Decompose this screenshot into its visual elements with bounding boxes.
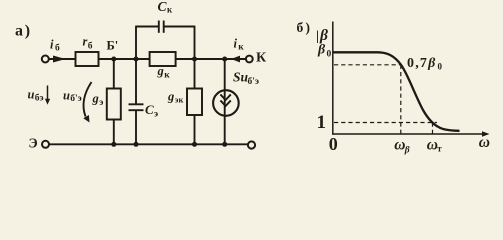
junction dot rail at g_e (111, 142, 116, 147)
label C_k (158, 0, 174, 14)
svg-text:э: э (99, 98, 103, 108)
capacitor C_e plates (129, 104, 144, 110)
svg-text:б'э: б'э (70, 93, 82, 104)
svg-text:Su: Su (233, 70, 249, 85)
dashed line 0.7 beta_0 level (334, 64, 401, 66)
terminal K (246, 56, 253, 63)
curve beta frequency response (334, 52, 460, 131)
svg-text:Б': Б' (107, 39, 119, 53)
capacitor C_k plates (159, 21, 164, 33)
label 0,7beta_0 (407, 56, 443, 72)
dashed line omega_T vertical (432, 123, 434, 134)
resistor g_e (107, 89, 121, 120)
svg-text:ω: ω (479, 134, 490, 151)
svg-text:Э: Э (29, 136, 38, 151)
terminal E (42, 141, 49, 148)
resistor g_k (150, 52, 176, 66)
label r_b (83, 35, 93, 52)
wire C_k top rail right (165, 26, 196, 28)
label C_e (145, 102, 158, 119)
junction dot rail at C_e (134, 142, 139, 147)
label i_b (50, 38, 60, 54)
label u_be (28, 88, 44, 104)
wire C_k top rail left (135, 26, 158, 28)
svg-text:э: э (154, 110, 158, 120)
label g_ek (167, 89, 183, 104)
label g_k (157, 64, 171, 81)
svg-text:б: б (88, 41, 93, 52)
x-axis omega with arrowhead (333, 131, 490, 137)
node B' junction dot (111, 57, 116, 62)
label g_e (92, 92, 104, 108)
svg-text:0: 0 (329, 134, 338, 154)
node C_k/g_ek junction dot on main wire (192, 57, 197, 62)
resistor g_ek (187, 89, 202, 116)
svg-text:|: | (331, 28, 334, 43)
svg-text:g: g (157, 64, 164, 78)
svg-text:б: б (55, 43, 60, 54)
label omega_T (427, 137, 443, 154)
node C_k/C_e junction dot on main wire (134, 57, 139, 62)
dashed line level 1 (334, 122, 437, 124)
wire C_k branch left vertical (135, 27, 137, 60)
wire collector node down through current source to emitter rail (224, 59, 226, 144)
voltage arrow u_be (45, 86, 50, 105)
svg-text:|: | (316, 28, 319, 43)
label omega_beta (394, 137, 410, 156)
label Su_b'e (233, 70, 259, 88)
label beta_0 (317, 43, 332, 60)
svg-text:C: C (158, 0, 168, 14)
svg-text:бэ: бэ (35, 92, 44, 103)
svg-text:0: 0 (327, 50, 332, 60)
wire main row down to g_ek (194, 59, 196, 89)
y-axis |beta| (332, 22, 334, 135)
current arrow i_b (53, 56, 66, 63)
current source Su_b'e (213, 90, 239, 116)
svg-text:u: u (28, 88, 35, 102)
voltage arc arrow u_b'e (83, 82, 91, 123)
terminal base input (42, 56, 49, 63)
label u_b'e (63, 88, 82, 104)
svg-text:u: u (63, 88, 70, 102)
svg-text:β: β (317, 43, 326, 58)
svg-text:1: 1 (317, 112, 327, 133)
current arrow i_k (231, 56, 240, 63)
svg-text:б): б) (297, 20, 313, 35)
svg-text:C: C (145, 102, 154, 117)
svg-text:i: i (234, 37, 238, 51)
resistor r_b (76, 52, 99, 66)
wire g_ek down to emitter rail (194, 115, 196, 144)
terminal emitter right (248, 141, 255, 148)
wire B' node down to g_e (113, 59, 115, 89)
label |beta| (316, 27, 334, 44)
svg-text:эк: эк (175, 95, 184, 105)
svg-text:g: g (167, 89, 174, 103)
junction dot rail at current source (222, 142, 227, 147)
svg-text:0: 0 (438, 62, 443, 72)
svg-text:т: т (437, 143, 442, 153)
svg-text:g: g (92, 92, 99, 106)
svg-text:б'э: б'э (248, 76, 260, 87)
dashed line omega_beta vertical (400, 65, 402, 134)
node collector junction dot (222, 57, 227, 62)
svg-text:к: к (167, 4, 173, 14)
svg-text:i: i (50, 38, 54, 52)
svg-text:0,7β: 0,7β (407, 56, 436, 71)
svg-text:к: к (164, 70, 170, 80)
wire main row down to C_e (135, 59, 137, 105)
wire emitter bottom rail (49, 143, 248, 145)
wire g_e down to emitter rail (113, 120, 115, 145)
svg-text:β: β (404, 146, 410, 156)
label i_k (234, 37, 245, 53)
junction dot rail at g_ek (192, 142, 197, 147)
svg-text:к: к (238, 43, 244, 53)
wire main row from base input to collector terminal (48, 58, 246, 60)
wire C_e down to emitter rail (135, 110, 137, 144)
svg-text:К: К (256, 51, 267, 66)
svg-text:а): а) (15, 22, 32, 39)
wire C_k branch right vertical (194, 27, 196, 60)
